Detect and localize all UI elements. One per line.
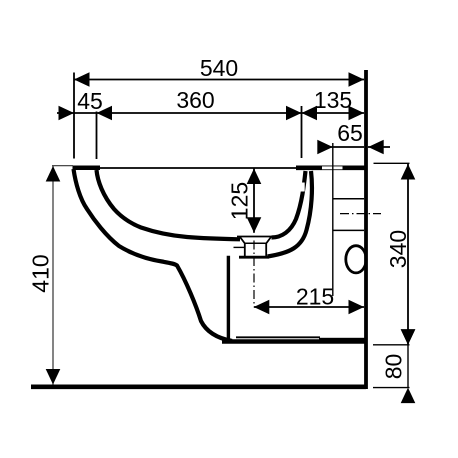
dim 80 middle extension xyxy=(373,344,410,346)
dim 215 left arrow xyxy=(254,300,269,315)
extension line x74 xyxy=(73,73,75,159)
dim 360 right arrow xyxy=(286,106,302,121)
dim 135 left arrow xyxy=(302,106,318,121)
dim 410 bottom arrow xyxy=(46,369,61,385)
svg-text:80: 80 xyxy=(381,354,407,380)
drain flange top line xyxy=(237,236,272,238)
dim 540 left arrow xyxy=(74,72,90,87)
svg-text:215: 215 xyxy=(296,284,334,310)
drain flange lower line xyxy=(244,242,267,244)
dim 65 right outside arrow xyxy=(368,140,384,155)
svg-text:125: 125 xyxy=(227,182,253,220)
svg-text:540: 540 xyxy=(200,55,238,81)
underside back solid band xyxy=(319,338,366,343)
dim 65 line right part xyxy=(368,146,390,148)
dim 125 line xyxy=(253,169,255,233)
wall line xyxy=(364,70,368,389)
bowl back inner wall xyxy=(272,171,306,238)
dim 80 top outside arrow xyxy=(401,329,416,345)
dim 45-360-135 line xyxy=(57,112,364,114)
back box lower line xyxy=(333,229,364,231)
dim 80 bottom extension xyxy=(373,387,410,389)
trap step line xyxy=(234,246,245,248)
nozzle notch white gap xyxy=(299,183,304,192)
dim 410 line xyxy=(52,166,54,385)
dim 65 left outside arrow xyxy=(317,140,333,155)
dim 540 line xyxy=(74,79,364,81)
drain center dash-dot line xyxy=(253,241,255,306)
svg-text:135: 135 xyxy=(314,87,352,113)
bidet outer front profile xyxy=(74,169,233,341)
svg-text:410: 410 xyxy=(28,254,54,292)
bowl back outer wall xyxy=(268,171,312,257)
rim front thick section xyxy=(73,166,101,171)
tap hole white gap in deck xyxy=(322,166,343,169)
drain cylinder bottom xyxy=(239,256,269,259)
dim 65 line left part xyxy=(318,146,364,148)
rim thin edge over opening xyxy=(97,167,300,169)
bidet inner bowl curve xyxy=(97,170,241,239)
dim 340 line xyxy=(407,164,409,345)
dim 360 left arrow xyxy=(97,106,113,121)
dim 135 right arrow xyxy=(349,106,365,121)
outlet circle xyxy=(346,246,366,273)
dim 340 top extension xyxy=(374,162,410,164)
underside thick line xyxy=(222,339,365,343)
dim 340 top arrow xyxy=(401,164,416,180)
drain cylinder right xyxy=(265,243,267,256)
floor line xyxy=(31,384,366,389)
dim 410 top arrow xyxy=(46,166,61,182)
dim 340 bottom arrow xyxy=(401,329,416,345)
extension line x301 xyxy=(301,106,303,158)
extension line x333 tap center xyxy=(332,143,334,296)
back box upper line xyxy=(333,198,364,200)
drain flange right slant xyxy=(267,237,272,243)
dim 125 top arrow xyxy=(247,169,262,185)
dim 215 right arrow xyxy=(349,300,365,315)
deck thick section xyxy=(296,166,366,171)
underside recess thin line xyxy=(236,336,320,338)
svg-text:65: 65 xyxy=(337,120,363,146)
dim 540 right arrow xyxy=(349,72,365,87)
trap left wall xyxy=(227,256,230,341)
fixing center dash-dot line xyxy=(340,213,381,215)
drain cylinder left xyxy=(244,243,246,256)
dim 80 bottom outside arrow xyxy=(401,388,416,404)
svg-text:360: 360 xyxy=(176,87,214,113)
drain flange left slant xyxy=(240,237,245,243)
dim 215 line xyxy=(254,306,364,308)
dim 125 bottom arrow xyxy=(247,217,262,233)
dim 80 line xyxy=(407,345,409,388)
svg-text:45: 45 xyxy=(77,88,103,114)
dim 45 outside arrow xyxy=(59,106,75,121)
svg-text:340: 340 xyxy=(385,230,411,268)
dim 410 extension xyxy=(52,165,73,167)
extension line x96 xyxy=(96,112,98,160)
